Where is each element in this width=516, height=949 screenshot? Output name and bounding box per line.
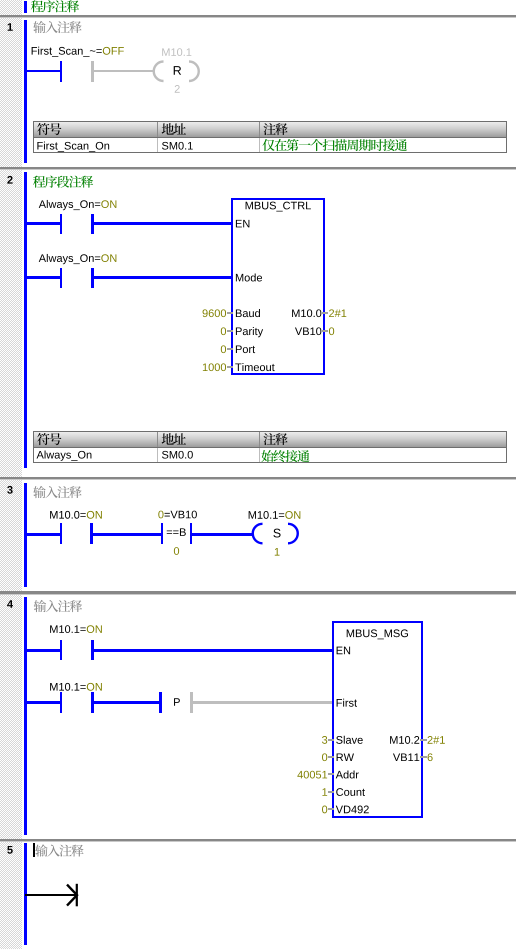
title MBUS_MSG (347, 630, 354, 638)
wire to P contact (94, 701, 160, 704)
label text 注释 (263, 123, 275, 135)
power rail program comment row (24, 1, 27, 13)
network 2 rung 1 wire from rail (25, 222, 60, 225)
label Always_On=ON rung 2 (39, 254, 46, 262)
contact M10.1 rung2 left plate (60, 692, 63, 712)
pin Timeout (235, 363, 241, 371)
input tick (328, 808, 334, 810)
separator below program comment (0, 15, 516, 17)
pin EN (236, 220, 242, 228)
coil letter S (273, 529, 280, 538)
network 4 rung 1 wire from rail (25, 649, 60, 652)
wire contact to compare block (93, 533, 161, 536)
input value 9600 (203, 309, 208, 317)
label First_Scan_~=OFF (32, 47, 37, 55)
label Always_On=ON rung 1 (39, 200, 46, 208)
label text 输入注释 (33, 21, 45, 33)
power rail network 2 (24, 172, 27, 468)
coil S parentheses (247, 520, 303, 548)
power rail network 3 (24, 483, 27, 587)
title MBUS_CTRL (246, 202, 253, 210)
network number 5 (7, 846, 12, 854)
P contact letter (174, 698, 180, 706)
symbol table network 2 (33, 431, 507, 463)
open rung arrow head (60, 880, 84, 910)
input value 0 (322, 753, 327, 761)
pin VD492 (336, 806, 343, 814)
network number 1 (8, 23, 13, 31)
pin Count (336, 788, 343, 796)
network 4 rung 2 wire from rail (25, 701, 60, 704)
label text 符号 (37, 123, 49, 135)
input value 1 (322, 788, 327, 796)
pin First (337, 699, 342, 707)
output operand VB11 (393, 753, 400, 761)
network number 2 (7, 176, 12, 184)
network 3 wire from rail (25, 533, 60, 536)
input tick (227, 366, 233, 368)
network 1 rung wire from rail (25, 70, 60, 73)
label M10.1=ON rung2 (50, 683, 57, 691)
contact First_Scan_On right plate (no power) (91, 61, 94, 81)
coil S M10.1 label (249, 511, 256, 519)
separator network 3/4 (0, 591, 516, 593)
contact Always_On left plate (60, 268, 63, 288)
input tick (328, 739, 334, 741)
coil letter R (174, 66, 181, 75)
wire to MBUS_MSG EN (94, 649, 332, 652)
power rail network 5 (24, 843, 27, 945)
label text 程序注释 (31, 0, 43, 12)
function block MBUS_CTRL box (231, 198, 325, 375)
separator network 2/3 (0, 477, 516, 479)
label text 地址 (162, 433, 174, 445)
input tick (328, 791, 334, 793)
pin Addr (336, 771, 343, 779)
symbol table network 1 (33, 121, 507, 153)
label text 注释 (263, 433, 275, 445)
label text 输入注释 (34, 600, 46, 612)
pin Mode (236, 274, 243, 282)
pin Slave (336, 736, 342, 744)
separator network 4/5 (0, 839, 516, 841)
label text 地址 (162, 123, 174, 135)
gutter (dithered margin) (0, 0, 22, 949)
wire to MBUS_CTRL (94, 276, 232, 279)
gray wire P contact to MBUS_MSG First (193, 701, 332, 703)
output value 6 (428, 753, 433, 761)
input tick (227, 348, 233, 350)
contact Always_On right plate (91, 268, 94, 288)
label M10.0=ON (50, 511, 57, 519)
output tick (420, 739, 427, 741)
contact M10.1 rung2 right plate (91, 692, 94, 712)
contact M10.1 rung1 left plate (60, 640, 63, 660)
input value 40051 (297, 771, 303, 779)
contact M10.0 right plate (90, 523, 93, 543)
label text 程序段注释 (33, 176, 45, 188)
output value 0 (329, 327, 334, 335)
input tick (227, 312, 233, 314)
output value 2#1 (329, 309, 334, 317)
output tick (322, 312, 328, 314)
network 2 rung 2 wire from rail (25, 276, 60, 279)
wire to MBUS_CTRL (94, 222, 232, 225)
contact Always_On left plate (60, 214, 63, 234)
wire compare to coil (192, 533, 253, 536)
output operand M10.2 (390, 736, 397, 744)
compare block right plate (190, 523, 193, 543)
compare label 0=VB10 (158, 511, 163, 519)
input value 0 (221, 327, 226, 335)
input tick (227, 330, 233, 332)
coil R parentheses (148, 58, 204, 86)
pin Baud (236, 309, 242, 317)
pin Port (236, 345, 242, 353)
input tick (328, 773, 334, 775)
input tick (328, 756, 334, 758)
compare mnemonic ==B (167, 531, 172, 535)
label text 输入注释 (33, 486, 45, 498)
power rail network 4 (24, 597, 27, 835)
coil count 2 (175, 85, 180, 93)
wire to coil (no power) (94, 70, 155, 73)
label text 始终接通 (261, 450, 273, 462)
pin Parity (236, 327, 242, 335)
label M10.1=ON rung1 (50, 625, 57, 633)
contact M10.1 rung1 right plate (91, 640, 94, 660)
input value 0 (322, 806, 327, 814)
output operand VB10 (295, 327, 302, 335)
P contact left plate (159, 692, 162, 712)
output tick (322, 330, 328, 332)
network number 4 (7, 600, 13, 608)
contact M10.0 left plate (60, 523, 63, 543)
coil R M10.1 operand label (162, 48, 169, 56)
label text 符号 (37, 433, 49, 445)
label text 输入注释 (35, 844, 47, 856)
contact First_Scan_On left plate (60, 61, 63, 81)
P contact right plate (no power) (190, 692, 193, 712)
compare block left plate (161, 523, 164, 543)
function block MBUS_MSG box (332, 621, 424, 818)
input value 3 (322, 736, 327, 744)
pin EN (337, 647, 343, 655)
output value 2#1 (428, 736, 433, 744)
coil count 1 (275, 548, 280, 556)
compare constant 0 (174, 547, 179, 555)
text cursor caret (33, 843, 35, 857)
separator network 1/2 (0, 167, 516, 169)
power rail network 1 (24, 20, 27, 163)
output tick (420, 756, 427, 758)
pin RW (337, 753, 344, 761)
input value 1000 (203, 363, 208, 371)
network number 3 (7, 486, 12, 494)
label text 仅在第一个扫描周期时接通 (262, 139, 274, 151)
contact Always_On right plate (91, 214, 94, 234)
network 5 open rung wire (25, 894, 76, 896)
input value 0 (221, 345, 226, 353)
output operand M10.0 (292, 309, 299, 317)
